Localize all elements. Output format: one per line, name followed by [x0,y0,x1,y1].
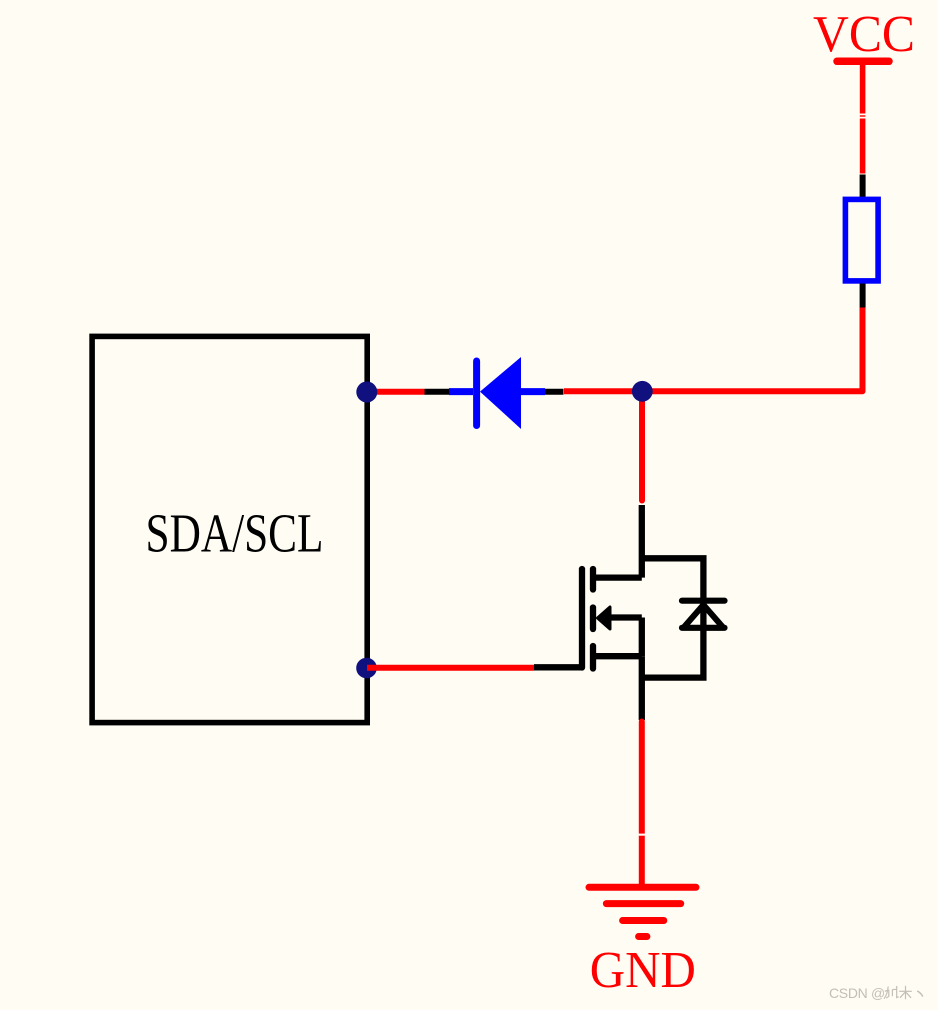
Q1 gate pin wire [534,664,582,670]
body diode branch with through line [642,558,704,677]
wire from resistor to node A [564,308,863,392]
Q1 drain pin stub [639,505,645,578]
pin stub resistor top [860,175,866,198]
Q1 bulk vertical [639,618,645,657]
diode D1 right lead [521,388,545,395]
Q1 channel dash top [590,569,596,590]
ground symbol bar 4 [639,933,647,940]
Q1 source horizontal [593,653,642,659]
node bottom pin of box junction dot [356,658,377,679]
box SDA/SCL [92,336,367,722]
watermark char 卯 [884,986,899,999]
resistor R1 [845,199,878,281]
Q1 bulk horizontal [609,614,642,620]
body diode anode bar [682,625,725,631]
pin stub diode left [425,389,450,395]
wire source to GND [639,722,645,887]
transistor Q1 [534,505,725,720]
Q1 gate bar [579,569,585,668]
pin stub resistor bottom [860,284,866,308]
svg-text:GND: GND [590,942,696,999]
wire drain from node A [639,391,645,500]
pin stub diode right [545,389,564,395]
Q1 source pin stub [639,656,645,720]
Q1 bulk arrow [598,607,611,629]
diode D1 cathode bar [473,361,480,426]
Q1 channel dash bottom [590,646,596,669]
power symbol VCC bar [837,58,889,66]
svg-text:VCC: VCC [813,6,915,63]
watermark char 木 [899,986,912,1000]
body diode triangle [685,605,723,627]
wire from box top pin to diode [367,389,425,395]
svg-text:SDA/SCL: SDA/SCL [146,503,324,564]
Q1 channel dash middle [590,608,596,630]
ground symbol bar 3 [623,917,664,924]
ground symbol bar 2 [606,900,680,907]
watermark char 丶 [917,991,923,997]
pin junction marker on VCC stem [860,114,867,116]
wire VCC stem [860,61,866,173]
pin junction marker on GND wire [639,834,646,836]
diode D1 triangle [480,357,521,429]
svg-text:CSDN @: CSDN @ [829,985,885,1001]
wire from box bottom pin to gate [367,665,534,671]
node top pin of box junction dot [356,382,377,403]
Q1 drain horizontal [593,574,642,580]
watermark CSDN [829,985,923,1001]
node A junction dot [632,381,653,402]
ground symbol bar 1 [589,884,696,891]
diode D1 left lead [449,388,473,395]
body diode cathode bar [682,598,725,604]
